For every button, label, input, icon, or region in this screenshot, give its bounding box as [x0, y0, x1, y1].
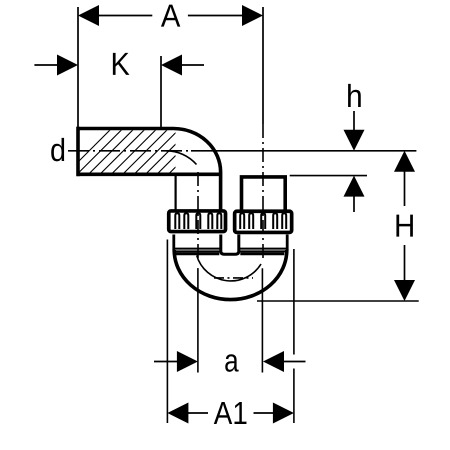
A1 right extension line upper	[293, 249, 295, 355]
a dimension left extension line	[197, 268, 199, 372]
dimension a right arrow	[263, 351, 284, 372]
bridge tab between nuts	[221, 235, 239, 255]
inlet pipe top edge and outer bend arc	[77, 129, 221, 212]
dimension a left tail	[154, 361, 178, 363]
pipe centerline dash-dot	[68, 150, 191, 152]
h/H datum line	[191, 150, 416, 152]
extension line A left	[77, 7, 79, 128]
outlet pipe top extension line	[290, 175, 367, 177]
dimension K right arrow	[161, 55, 182, 76]
trap left shoulder	[174, 252, 219, 255]
trap right shoulder	[240, 252, 284, 255]
right knurled nut	[235, 211, 292, 232]
right nut knurl slots	[240, 213, 286, 229]
inlet pipe hatching	[60, 120, 234, 180]
a dimension right extension line	[261, 268, 263, 372]
dimension a left arrow	[177, 351, 198, 372]
left nut tail socket	[174, 235, 220, 252]
A1 left extension line	[166, 240, 168, 424]
A1 right extension line lower	[293, 369, 295, 424]
dimension A left arrow	[78, 5, 99, 26]
dimension A right arrow	[242, 5, 263, 26]
dimension A line	[97, 15, 244, 17]
trap inner arc	[197, 256, 261, 281]
dimension A1 right arrow	[273, 403, 294, 424]
extension line A right / outlet centerline solid part	[262, 7, 264, 124]
svg-text:a: a	[224, 342, 239, 378]
svg-text:A1: A1	[214, 395, 248, 431]
left nut knurl slots	[175, 213, 221, 229]
dimension h lower arrow	[344, 176, 365, 197]
right nut tail socket	[240, 235, 287, 252]
trap body outer outline	[174, 250, 287, 300]
svg-text:A: A	[161, 0, 181, 34]
dimension a right tail	[283, 361, 306, 363]
dimension A1 left arrow	[167, 403, 188, 424]
dimension K line left tail	[34, 64, 58, 66]
dimension H bottom arrow	[404, 245, 406, 282]
outlet pipe	[242, 177, 286, 211]
extension line K right	[160, 56, 162, 128]
svg-text:K: K	[111, 46, 130, 82]
dimension A1 line	[187, 412, 274, 414]
svg-text:h: h	[346, 78, 363, 114]
inlet pipe outline	[77, 127, 221, 211]
dimension h upper arrow	[353, 111, 355, 132]
bend inner bore arc	[166, 151, 197, 165]
left knurled nut	[169, 211, 226, 232]
dimension H top arrow	[394, 151, 415, 172]
down pipe left edge	[175, 173, 177, 211]
inlet pipe bottom edge	[77, 173, 221, 177]
inlet pipe left end cap	[76, 127, 80, 176]
svg-text:H: H	[394, 208, 415, 244]
trap bottom extension line	[257, 300, 419, 302]
outlet pipe centerline dash-dot	[262, 124, 264, 258]
left pipe centerline dash-dot	[197, 172, 199, 258]
trap centerline dash-dot	[214, 277, 253, 279]
dimension K right tail	[181, 64, 204, 66]
svg-text:d: d	[50, 132, 66, 168]
dimension K left arrow	[57, 55, 78, 76]
